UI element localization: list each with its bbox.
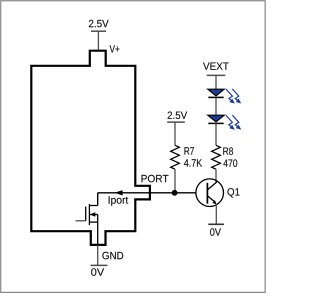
wire R7 to PORT node — [174, 169, 176, 193]
wire drain stub — [89, 205, 97, 207]
label 470 — [223, 159, 237, 167]
node PORT junction — [172, 190, 178, 196]
LED D1 — [208, 89, 224, 97]
resistor R8 — [212, 145, 221, 169]
MOSFET body arrow — [90, 212, 95, 216]
label 2.5V (R7 pull-up supply) — [168, 112, 188, 120]
label Q1 — [227, 188, 239, 197]
label R7 — [184, 147, 194, 154]
wire source to GND tab — [97, 215, 99, 245]
label Iport — [109, 196, 129, 205]
MOSFET M1 channel bar — [88, 204, 90, 225]
label V+ — [110, 45, 120, 52]
label GND — [102, 252, 123, 259]
MOSFET M1 gate bar — [85, 207, 87, 221]
label 0V (GND) — [91, 268, 104, 276]
wire body stub — [89, 214, 97, 216]
ground bar 0V (GND) — [91, 264, 108, 266]
LED D1 light rays — [226, 89, 240, 103]
label R8 — [223, 147, 233, 155]
wire LED2 to R8 — [215, 123, 217, 145]
ground bar 0V (Q1 emitter) — [208, 223, 224, 225]
label 0V (Q1 emitter) — [210, 228, 221, 236]
Iport current arrow — [115, 190, 123, 195]
power bar 2.5V (R7) — [167, 121, 185, 123]
LED D2 — [208, 115, 224, 123]
label 4.7K — [184, 159, 202, 166]
label VEXT — [203, 63, 229, 70]
transistor Q1 — [196, 179, 224, 207]
wire LED1 to LED2 — [215, 97, 217, 115]
wire PORT net (MOSFET drain to Q1 base) — [98, 192, 196, 194]
wire drain to PORT — [97, 193, 99, 206]
wire GND to 0V — [97, 245, 99, 266]
wire VEXT to LED1 — [215, 75, 217, 89]
wire Q1 emitter to 0V — [215, 204, 217, 224]
port device box U1 — [31, 51, 150, 245]
power bar 2.5V (V+ supply) — [91, 30, 106, 32]
wire gate lead — [76, 220, 86, 222]
label PORT — [142, 175, 169, 183]
resistor R7 — [171, 145, 180, 169]
power bar VEXT — [207, 74, 226, 76]
wire R8 to Q1 collector — [215, 169, 217, 182]
LED D2 light rays — [226, 115, 240, 129]
label 2.5V (V+ supply) — [89, 20, 109, 28]
wire V+ lead — [97, 31, 99, 50]
wire 2.5V to R7 — [174, 122, 176, 145]
wire source stub — [89, 221, 97, 223]
